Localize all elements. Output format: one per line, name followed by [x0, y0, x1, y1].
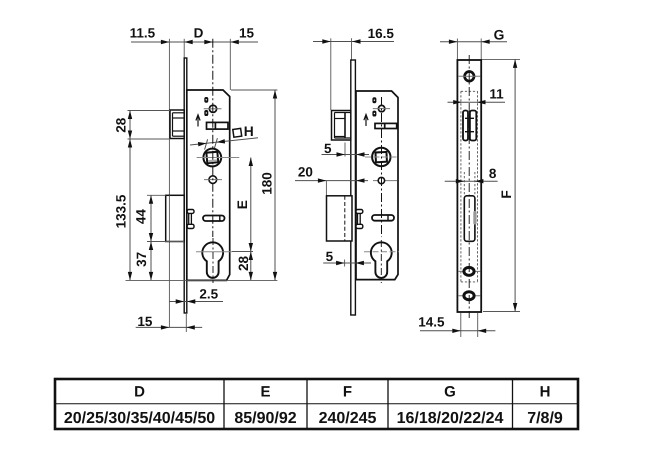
svg-text:D: D [194, 26, 204, 41]
wire: extension line through deadbolt box [168, 195, 170, 241]
case bottom extended reference line [126, 279, 278, 281]
bottom screw hole front view [458, 295, 481, 297]
svg-text:16.5: 16.5 [368, 26, 395, 41]
svg-text:11.5: 11.5 [130, 26, 156, 41]
arrowheads top dimension [161, 40, 170, 44]
top screw hole front view [458, 75, 481, 77]
svg-text:85/90/92: 85/90/92 [234, 410, 296, 427]
reference line case top right [231, 89, 277, 91]
lower screw hole left view [204, 179, 222, 181]
dimension 16.5 top [313, 41, 394, 43]
upper slot left view [207, 122, 229, 129]
reference line box bottom [147, 241, 184, 243]
dimension G top [440, 41, 507, 43]
inner channel dashed lines [460, 91, 462, 282]
dimension 20 [295, 180, 368, 182]
pill pin upper [204, 97, 208, 103]
faceplate middle view [351, 60, 356, 315]
node: centerline cylinder vertical middle view [380, 240, 382, 283]
deadbolt slot front view [464, 196, 475, 242]
svg-text:15: 15 [239, 26, 255, 41]
middle screw hole front view [458, 270, 481, 272]
svg-text:44: 44 [133, 209, 148, 225]
svg-text:5: 5 [324, 141, 332, 156]
dimension 15 bottom [136, 326, 203, 328]
latch bolt middle view [332, 111, 351, 141]
dimension E [250, 158, 252, 252]
dimension 44 and 37 [150, 195, 152, 280]
latch bolt left view [170, 110, 184, 139]
faceplate front view outline [457, 60, 481, 312]
euro cylinder left view [202, 242, 223, 278]
I-element middle view [356, 210, 363, 214]
reference line latch top [128, 110, 171, 112]
svg-text:7/8/9: 7/8/9 [527, 410, 563, 427]
H dimension extension lines [205, 139, 208, 149]
svg-text:20/25/30/35/40/45/50: 20/25/30/35/40/45/50 [64, 410, 215, 427]
up arrow symbol middle view [365, 116, 367, 127]
roller latch front view [463, 111, 468, 141]
svg-text:180: 180 [259, 172, 274, 195]
reference line cylinder center [232, 251, 253, 253]
lower slot capsule middle view [372, 215, 394, 221]
lower slot capsule left view [203, 216, 225, 222]
svg-text:133.5: 133.5 [113, 194, 128, 228]
deadbolt box middle view [327, 196, 353, 241]
top screw hole left view [204, 108, 222, 110]
svg-text:11: 11 [489, 87, 504, 102]
dimension 14.5 [460, 313, 462, 337]
svg-text:15: 15 [137, 314, 153, 329]
svg-text:37: 37 [134, 252, 149, 267]
wire: extension line latch-left long [168, 39, 170, 328]
svg-text:28: 28 [113, 117, 128, 133]
svg-text:E: E [260, 384, 270, 401]
svg-text:H: H [244, 124, 254, 139]
dimension 8 [445, 180, 498, 182]
pill pin lower [204, 110, 208, 116]
table header separator [55, 403, 578, 405]
svg-text:8: 8 [489, 166, 497, 181]
wire: extension line faceplate-left top [183, 39, 185, 58]
table outer border [55, 379, 578, 429]
spindle follower middle view [372, 148, 390, 166]
svg-text:2.5: 2.5 [199, 287, 218, 302]
svg-text:5: 5 [326, 249, 334, 264]
spindle follower left view [203, 149, 221, 167]
node: centerline vertical right view [468, 55, 470, 318]
svg-text:F: F [499, 190, 514, 198]
node: centerline cylinder vertical left view [212, 238, 214, 283]
pill pin lower middle [372, 111, 376, 117]
svg-text:G: G [494, 28, 505, 43]
upper slot middle view [375, 123, 397, 128]
svg-text:28: 28 [236, 256, 251, 272]
I-element (strike pin) left view [187, 210, 194, 214]
svg-text:F: F [343, 384, 352, 401]
dimension 5 upper middle [322, 154, 370, 156]
node: centerline vertical middle view [381, 97, 383, 237]
H dimension line [190, 138, 258, 145]
svg-text:14.5: 14.5 [418, 315, 445, 330]
top screw hole middle view [373, 108, 390, 110]
lower screw hole middle view [373, 180, 397, 182]
dimension F [482, 58, 520, 60]
extension line faceplate bottom [185, 313, 187, 332]
dimension 28 right [250, 252, 252, 281]
reference line box top [147, 194, 166, 196]
pill pin upper middle [372, 97, 376, 103]
node: centerline vertical left view [212, 39, 214, 237]
deadbolt box left view [166, 195, 185, 241]
lock case body left view [187, 90, 230, 280]
faceplate left view [184, 58, 187, 313]
H small square symbol [233, 128, 242, 137]
euro cylinder middle view [371, 242, 392, 278]
svg-text:G: G [444, 384, 456, 401]
svg-text:D: D [134, 384, 145, 401]
dimension 5 lower middle [323, 262, 371, 264]
grey patch on slot [473, 211, 476, 225]
lock case body middle view [356, 91, 398, 280]
up arrow symbol left view [197, 116, 199, 127]
dimension 180 [274, 90, 276, 280]
svg-text:E: E [235, 200, 250, 209]
wire: extension line case-right top [229, 39, 231, 90]
svg-text:H: H [540, 384, 551, 401]
dimension 11 [448, 101, 506, 103]
svg-text:16/18/20/22/24: 16/18/20/22/24 [397, 410, 504, 427]
dimension 28 left [129, 111, 131, 281]
reference line latch bottom [128, 138, 171, 140]
svg-text:240/245: 240/245 [319, 410, 377, 427]
wire: top dimension line left view [131, 41, 258, 43]
table column lines [223, 379, 225, 429]
dimension 2.5 [169, 301, 223, 303]
svg-text:20: 20 [298, 165, 313, 180]
